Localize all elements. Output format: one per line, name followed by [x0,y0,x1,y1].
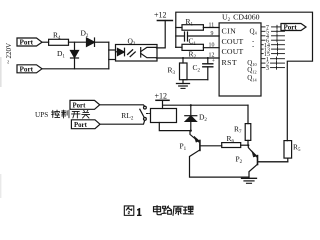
svg-text:+: + [212,59,215,65]
svg-text:1: 1 [137,207,142,218]
svg-text:CIN: CIN [222,27,237,36]
svg-text:10: 10 [209,42,215,48]
svg-text:UPS: UPS [35,111,48,119]
svg-text:~ 220V: ~ 220V [5,43,13,64]
svg-text:Port: Port [73,102,87,109]
svg-text:RST: RST [222,58,238,67]
svg-text:Port: Port [284,24,298,32]
svg-text:COUT: COUT [222,37,244,46]
svg-text:COUT: COUT [222,47,244,56]
svg-text:Port: Port [20,65,34,73]
svg-text:Port: Port [20,39,34,47]
svg-text:12: 12 [209,52,215,58]
svg-text:Port: Port [74,122,88,129]
svg-text:+12: +12 [154,11,167,20]
svg-text:3: 3 [266,66,269,72]
svg-text:+12: +12 [155,91,168,100]
svg-text:9: 9 [211,31,214,37]
svg-text:11: 11 [209,22,215,28]
